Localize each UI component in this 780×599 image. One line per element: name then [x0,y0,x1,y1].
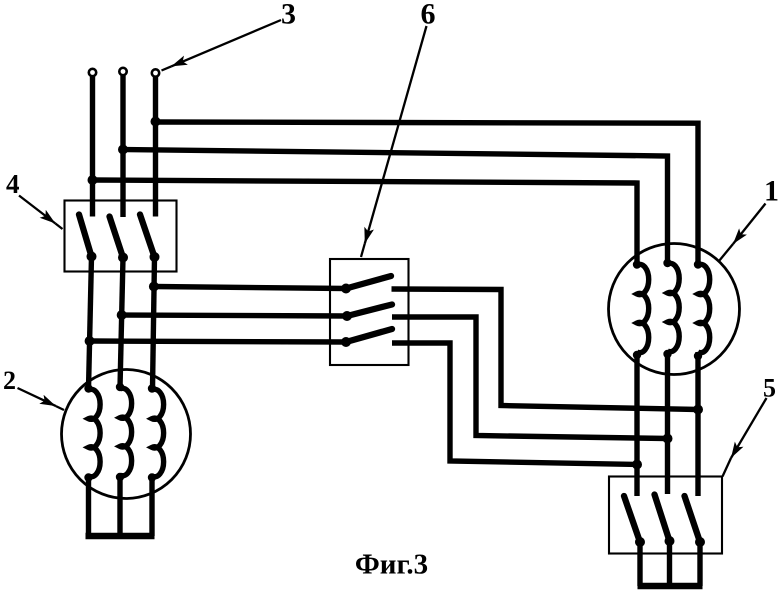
switch 4 pole 1 contact node [87,252,97,262]
wire tap2 to switch 6 [122,315,347,316]
wire switch4 pole1 to motor2 coil1 [89,257,92,390]
terminal B of supply [119,68,126,75]
switch 5 pole 3 contact node [695,537,705,547]
terminal C of supply [152,69,159,76]
wire switch6 out2 to motor1 middle lead [392,317,668,439]
wire B middle feeder to motor 1 middle coil [123,150,668,265]
wire phase1 vertical [90,77,95,217]
wire A top feeder to motor 1 right coil [156,122,699,264]
svg-text:3: 3 [281,0,296,31]
leader arrow to motor 2 [18,388,65,410]
node tap on phase2 lead [117,310,127,320]
node out1 junction [693,405,703,415]
wire phase3 vertical [153,77,158,217]
node on phase3 feeding wire A [151,117,161,127]
wire switch5 pole3 down [697,542,702,586]
wire switch4 pole3 to motor2 coil3 [153,257,155,389]
node on phase2 feeding wire B [118,145,128,155]
switch 6 pole 1 pivot node [341,284,351,294]
motor 1 stator circle [609,244,740,375]
switch 4 pole 2 blade [110,217,124,258]
wire switch6 out3 to motor1 left lead [392,343,637,465]
node tap on phase3 lead [149,282,159,292]
leader arrow to motor 1 [719,204,766,262]
svg-text:2: 2 [3,366,16,395]
switch 6 pole 2 pivot node [342,311,352,321]
switch 6 pole 1 blade [346,276,391,289]
motor 2 coil 3 [148,384,164,536]
motor 1 coil 3 [694,260,710,496]
svg-text:4: 4 [6,169,20,199]
switch box 5 [609,477,722,554]
node tap on phase1 lead [85,336,95,346]
wire switch5 pole1 down [637,542,642,586]
switch 6 pole 3 blade [346,329,392,342]
switch 4 pole 3 blade [140,215,155,258]
svg-text:Фиг.3: Фиг.3 [355,549,428,581]
leader arrow to switch 4 [19,196,63,230]
switch 4 pole 1 blade [79,215,92,257]
wire tap3 to switch 6 [90,341,346,342]
leader arrow to switch 6 [361,26,427,257]
motor 2 stator circle [62,370,191,499]
terminal A of supply [89,69,96,76]
switch 5 pole 2 contact node [665,536,675,546]
motor 1 coil 2 [663,259,679,494]
motor 2 coil 2 [116,383,132,536]
switch box 4 [65,201,177,272]
switch 5 pole 3 blade [685,496,701,542]
switch 5 pole 1 contact node [635,537,645,547]
motor 1 coil 1 [633,260,649,496]
star point bar of motor 2 [86,533,155,540]
switch 4 pole 2 contact node [118,253,128,263]
switch 4 pole 3 contact node [150,252,160,262]
wire phase2 vertical [120,76,125,218]
switch 6 pole 3 pivot node [341,337,351,347]
node out3 junction [632,460,642,470]
wire switch4 pole2 to motor2 coil2 [120,258,123,389]
node out2 junction [663,434,673,444]
switch 5 pole 1 blade [624,496,640,542]
star point bar of switch 5 [638,583,703,590]
leader arrow to terminals [162,20,282,71]
motor 2 coil 1 [84,384,100,536]
switch 6 pole 2 blade [347,305,392,317]
svg-text:1: 1 [764,175,779,208]
leader arrow to switch 5 [723,398,767,477]
svg-text:6: 6 [421,0,436,31]
wire C lower feeder to motor 1 left coil [93,180,638,264]
wire tap1 to switch 6 [154,287,346,289]
wire switch5 pole2 down [667,541,672,586]
switch 5 pole 2 blade [655,495,670,542]
switch box 6 [330,259,409,365]
svg-text:5: 5 [763,374,776,403]
wire switch6 out1 to motor1 right lead [392,289,699,410]
node on phase1 feeding wire C [88,175,98,185]
